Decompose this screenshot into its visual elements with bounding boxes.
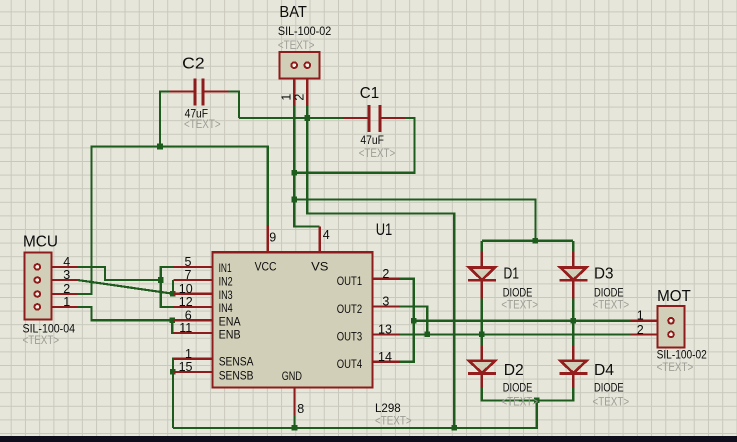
D3 pin stubs (572, 252, 574, 299)
wire MCU4 steps (78, 267, 161, 280)
MCU pin stubs (41, 267, 78, 307)
node D3/D4 on MOT1 (570, 318, 576, 324)
svg-text:D2: D2 (504, 362, 524, 379)
svg-text:IN4: IN4 (219, 301, 233, 315)
node ENA (169, 318, 175, 324)
svg-text:IN1: IN1 (219, 261, 232, 275)
svg-text:BAT: BAT (279, 4, 307, 21)
svg-text:8: 8 (297, 402, 304, 416)
svg-text:4: 4 (323, 228, 330, 242)
svg-text:<TEXT>: <TEXT> (501, 395, 538, 409)
svg-text:D3: D3 (594, 265, 614, 282)
U1 top pin stubs VCC VS (268, 225, 320, 253)
wire GND pin drop (293, 415, 295, 428)
wire D1-D2 column middle (481, 298, 483, 353)
node D1/D2 on MOT2 (479, 332, 485, 338)
svg-text:SIL-100-02: SIL-100-02 (278, 24, 331, 38)
wire D1 column top (481, 241, 483, 253)
svg-text:2: 2 (63, 282, 70, 296)
wire ENA-ENB link (172, 320, 173, 333)
svg-text:1: 1 (637, 308, 644, 322)
node OUT1/OUT4 to MOT1 (411, 318, 417, 324)
wire MOT1 (414, 320, 631, 322)
svg-text:47uF: 47uF (360, 133, 384, 147)
connector MCU body (24, 253, 51, 320)
wire C2 left to node D (160, 92, 170, 147)
svg-text:1: 1 (185, 347, 192, 361)
svg-text:11: 11 (179, 321, 192, 335)
svg-text:3: 3 (63, 268, 70, 282)
svg-text:D4: D4 (594, 362, 614, 379)
capacitor C2 plates (195, 79, 380, 133)
node GND on rail (292, 425, 298, 431)
svg-text:7: 7 (185, 268, 192, 282)
svg-text:14: 14 (378, 350, 392, 364)
svg-text:<TEXT>: <TEXT> (593, 395, 630, 409)
svg-text:DIODE: DIODE (594, 381, 624, 395)
node diode top rail center (533, 238, 539, 244)
capacitor C1 pin stubs (343, 117, 405, 119)
node BAT+ to diode rail (291, 197, 297, 203)
diode D1 (468, 267, 496, 280)
svg-text:13: 13 (378, 322, 392, 336)
node C1 to BAT+ (291, 170, 297, 176)
svg-text:<TEXT>: <TEXT> (278, 38, 315, 52)
D4 pin stubs (572, 346, 574, 388)
svg-text:GND: GND (282, 369, 302, 383)
svg-text:VCC: VCC (255, 260, 277, 274)
diode D2 (468, 361, 496, 374)
node diode bottom rail (534, 398, 540, 404)
wire V1 IN1-IN4 (161, 267, 174, 307)
wire BAT pin1 down to VS (294, 106, 320, 227)
svg-text:SENSB: SENSB (219, 369, 254, 383)
svg-text:10: 10 (179, 282, 193, 296)
svg-text:OUT3: OUT3 (337, 329, 363, 343)
wire D3 column top (572, 241, 574, 253)
wire C1 right loop to BAT+ node (294, 118, 414, 173)
svg-text:IN2: IN2 (219, 274, 233, 288)
D2 pin stubs (481, 346, 483, 388)
svg-text:2: 2 (637, 323, 644, 337)
svg-text:12: 12 (179, 295, 193, 309)
op IC U1 L298 body (213, 252, 373, 387)
svg-text:<TEXT>: <TEXT> (375, 414, 412, 428)
wire OUT1-OUT4 (400, 279, 414, 362)
capacitor C2 pin stubs (170, 90, 229, 92)
U1 GND pin stub (293, 387, 295, 415)
D1 pin stubs (481, 252, 483, 299)
node F on rail (451, 425, 457, 431)
svg-text:2: 2 (293, 94, 307, 101)
node SENSB (170, 369, 176, 375)
wire D3-D4 column middle (572, 298, 574, 353)
wire SENSA-SENSB to ground rail (172, 359, 175, 428)
svg-text:DIODE: DIODE (503, 381, 533, 395)
svg-text:MCU: MCU (23, 234, 58, 251)
U1 right pin stubs (372, 279, 400, 362)
svg-text:C2: C2 (182, 55, 205, 72)
wire MCU3 diagonal (78, 280, 173, 294)
svg-text:<TEXT>: <TEXT> (23, 333, 60, 347)
svg-text:<TEXT>: <TEXT> (359, 146, 396, 160)
svg-text:OUT2: OUT2 (337, 302, 363, 316)
WIRES (green) (78, 92, 631, 428)
svg-text:9: 9 (269, 230, 276, 244)
wire BAT- rail to C1 left (239, 117, 343, 119)
MOT pin stubs (631, 321, 659, 335)
svg-text:OUT4: OUT4 (337, 357, 363, 371)
wire OUT3 MOT2 (400, 333, 631, 335)
svg-text:SENSA: SENSA (219, 355, 254, 369)
RED PIN STUBS (41, 78, 658, 415)
svg-text:<TEXT>: <TEXT> (184, 117, 221, 131)
diode D4 (559, 361, 587, 374)
connector BAT body (279, 52, 319, 79)
svg-text:5: 5 (185, 255, 192, 269)
BAT pin stubs (294, 78, 307, 106)
node MCU4/V1 (158, 277, 164, 283)
svg-text:D1: D1 (504, 265, 520, 282)
diode D3 (559, 267, 587, 280)
svg-text:4: 4 (63, 255, 70, 269)
capacitor C1 plates (369, 105, 380, 132)
svg-text:<TEXT>: <TEXT> (501, 298, 538, 312)
node C2/VCC (157, 144, 163, 150)
svg-text:15: 15 (179, 360, 193, 374)
connector MOT body (657, 306, 684, 348)
svg-text:C1: C1 (360, 85, 379, 102)
svg-text:MOT: MOT (657, 288, 691, 305)
svg-text:1: 1 (279, 94, 293, 101)
U1 left pin stubs (174, 267, 214, 372)
node BAT- on cap rail (305, 115, 311, 121)
wire V2 IN2-IN3 (172, 280, 174, 294)
node OUT2/OUT3 (424, 332, 430, 338)
wire OUT2 down (400, 306, 427, 334)
svg-text:ENB: ENB (219, 327, 241, 341)
wire diode top rail (482, 240, 573, 242)
wire MCU1 to ENA (78, 307, 174, 320)
wire F BAT pin2 to ground rail (307, 106, 454, 428)
svg-text:2: 2 (382, 267, 389, 281)
svg-text:1: 1 (63, 295, 70, 309)
svg-text:IN3: IN3 (219, 288, 233, 302)
wire D VCC rail (78, 147, 268, 295)
svg-text:U1: U1 (376, 220, 393, 239)
svg-text:OUT1: OUT1 (337, 274, 363, 288)
wire C2 right down to BAT- rail (229, 92, 240, 119)
wire D2 bottom (482, 387, 573, 400)
svg-text:3: 3 (382, 295, 389, 309)
wire ground rail (173, 400, 537, 428)
svg-text:VS: VS (311, 260, 328, 274)
wire E BAT+ to diode top rail (294, 200, 535, 241)
svg-text:<TEXT>: <TEXT> (657, 360, 694, 374)
node IN3/diagonal (170, 291, 176, 297)
svg-text:<TEXT>: <TEXT> (593, 298, 630, 312)
